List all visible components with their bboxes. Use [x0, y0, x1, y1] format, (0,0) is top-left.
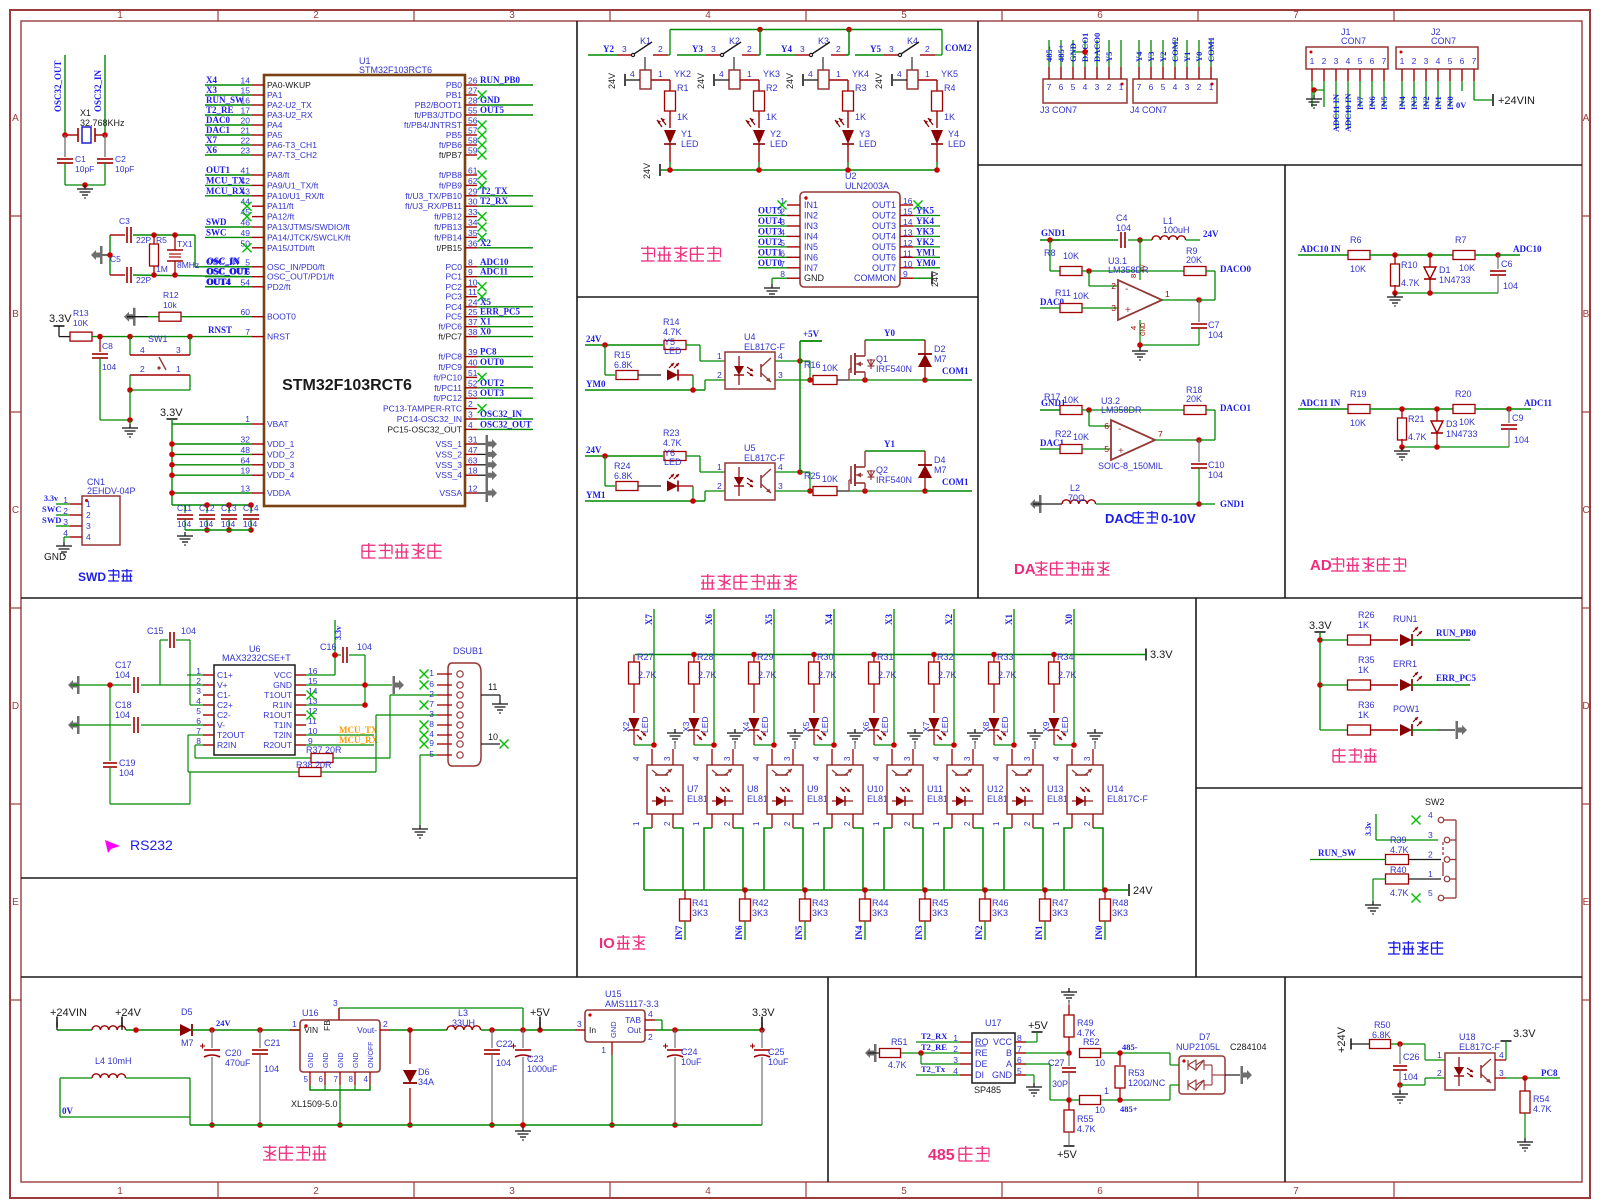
U6 pin 5 C2-: [196, 706, 231, 720]
svg-text:VBAT: VBAT: [267, 419, 289, 429]
svg-text:C18: C18: [115, 700, 132, 710]
svg-text:SWC: SWC: [42, 504, 61, 514]
svg-text:U14: U14: [1107, 784, 1124, 794]
X mark T1OUT: [307, 691, 316, 700]
R1IN tie wire: [306, 702, 368, 708]
svg-text:34: 34: [468, 218, 478, 228]
capacitor C7 104: [1191, 300, 1223, 345]
svg-text:Ω: Ω: [1078, 493, 1085, 503]
svg-text:PC2: PC2: [445, 282, 462, 292]
DSUB1 pin 1: [420, 668, 464, 679]
resistor R41 3K3: [674, 890, 709, 940]
svg-text:ft/PC6: ft/PC6: [438, 322, 462, 332]
svg-text:IRF540N: IRF540N: [876, 475, 912, 485]
svg-text:1: 1: [1428, 869, 1433, 879]
svg-text:ft/PC11: ft/PC11: [434, 383, 462, 393]
svg-text:IN5: IN5: [804, 242, 818, 252]
svg-text:R36: R36: [1358, 700, 1375, 710]
wire R50 to U18 pin1: [1425, 1044, 1445, 1060]
wire opto to 24V rail ch0: [644, 828, 683, 890]
title run switch block: [1388, 941, 1400, 954]
U1 pin 31 VSS_1: [436, 435, 478, 450]
capacitor C10 104: [1191, 440, 1225, 504]
svg-text:47: 47: [468, 445, 478, 455]
U1 pin 27 PB1: [446, 86, 487, 101]
U1 pin 3 PC14-OSC32_IN: [397, 409, 533, 424]
svg-text:R30: R30: [817, 652, 834, 662]
svg-text:T2_RE: T2_RE: [921, 1042, 947, 1052]
LED X2 indicator: [621, 716, 657, 747]
svg-text:7: 7: [1158, 429, 1163, 439]
DSUB1 pin 7: [420, 699, 464, 710]
svg-text:3: 3: [509, 1186, 515, 1197]
svg-text:R22: R22: [1055, 429, 1072, 439]
resistor R38 20R: [188, 715, 437, 777]
svg-text:24V: 24V: [930, 271, 940, 287]
U17 pin 8 VCC: [993, 1033, 1026, 1047]
svg-text:YK4: YK4: [852, 69, 869, 79]
svg-text:20K: 20K: [1186, 255, 1202, 265]
svg-text:104: 104: [221, 519, 235, 529]
svg-text:Q1: Q1: [876, 354, 888, 364]
net label X6 vertical: [704, 609, 714, 745]
svg-text:2: 2: [383, 1019, 388, 1029]
svg-text:13: 13: [903, 227, 913, 237]
svg-text:ft/PB14: ft/PB14: [434, 232, 462, 242]
svg-text:R55: R55: [1077, 1114, 1094, 1124]
X mark SW2 pin5: [1412, 894, 1421, 903]
svg-text:PA2-U2_TX: PA2-U2_TX: [267, 100, 312, 110]
svg-text:28: 28: [468, 96, 478, 106]
LED Y5: [664, 337, 693, 390]
U1 pin 54 PD2/ft: [205, 277, 291, 292]
svg-text:YM1: YM1: [586, 490, 606, 500]
svg-text:X0: X0: [480, 327, 491, 337]
junction dot 3.3V rail ch6: [991, 652, 997, 658]
svg-text:55: 55: [468, 106, 478, 116]
svg-text:0V: 0V: [1456, 100, 1467, 110]
svg-text:IN0: IN0: [1445, 96, 1455, 110]
svg-text:OUT2: OUT2: [480, 378, 505, 388]
inductor L1 100uH: [1152, 216, 1219, 240]
svg-text:ERR1: ERR1: [1393, 659, 1417, 669]
U1 pin 41 PA8/ft: [205, 165, 290, 180]
transceiver U17 SP485 body: [972, 1018, 1015, 1095]
MOSFET Q1 IRF540N: [849, 340, 912, 380]
svg-text:IN7: IN7: [1355, 96, 1365, 110]
svg-text:RUN_PB0: RUN_PB0: [480, 75, 520, 85]
svg-text:Y2: Y2: [770, 129, 781, 139]
svg-text:3: 3: [468, 410, 473, 420]
svg-text:OUT2: OUT2: [872, 211, 896, 221]
relay COM2 top rail wire: [670, 27, 942, 33]
U2 pin 12 OUT5: [872, 237, 940, 252]
svg-text:33: 33: [468, 207, 478, 217]
svg-text:ft/PB9: ft/PB9: [439, 180, 462, 190]
svg-text:X5: X5: [480, 297, 491, 307]
opto pin stubs ch0: [652, 749, 673, 828]
svg-text:YK4: YK4: [916, 216, 935, 226]
common mode choke L4 10mH: [60, 1026, 190, 1125]
J1 pin 6: [1367, 56, 1377, 110]
svg-text:DI: DI: [975, 1070, 984, 1080]
ground for power block: [515, 1122, 531, 1140]
svg-text:R31: R31: [877, 652, 894, 662]
svg-text:C: C: [1582, 505, 1589, 516]
U1 pin 53 ft/PC12: [434, 388, 533, 403]
U2 pin 1 IN1: [778, 196, 819, 210]
svg-text:VSS_1: VSS_1: [436, 439, 463, 449]
svg-text:7: 7: [334, 1075, 339, 1084]
svg-text:3: 3: [1428, 830, 1433, 840]
svg-text:OSC32_OUT: OSC32_OUT: [480, 419, 532, 429]
svg-text:3: 3: [1095, 82, 1100, 92]
svg-text:1: 1: [992, 821, 1001, 826]
ground for R54: [1517, 1138, 1533, 1151]
svg-text:U2: U2: [845, 171, 857, 181]
svg-text:YK2: YK2: [674, 69, 691, 79]
svg-text:COM2: COM2: [1170, 37, 1180, 62]
svg-text:LED: LED: [1060, 716, 1070, 733]
U1 pin 61 ft/PB8: [439, 166, 487, 181]
svg-text:1: 1: [1104, 1086, 1109, 1096]
svg-text:104: 104: [243, 519, 257, 529]
capacitor C27 30P: [1048, 1053, 1076, 1100]
svg-text:MCU_TX: MCU_TX: [206, 175, 245, 185]
SW2 frame link: [1443, 820, 1456, 898]
label RS232: [105, 837, 173, 853]
resistor R44 3K3: [854, 890, 889, 940]
U2 pin 9 COMMON: [854, 269, 913, 283]
zener diode D3 1N4733: [1431, 409, 1478, 447]
svg-text:2: 2: [843, 821, 852, 826]
svg-text:OUT3: OUT3: [480, 388, 505, 398]
svg-text:2: 2: [1437, 1068, 1442, 1078]
capacitor C25 10uF: [750, 1030, 789, 1125]
svg-text:37: 37: [468, 317, 478, 327]
optocoupler U9 EL817C-F: [752, 756, 840, 826]
wire 3.3V to VDD pins: [169, 419, 252, 505]
relay coil YK3: [715, 57, 780, 91]
U17 pin 2 RE: [953, 1044, 987, 1058]
svg-text:22: 22: [241, 136, 251, 146]
svg-text:3: 3: [622, 44, 627, 54]
svg-text:104: 104: [1116, 223, 1131, 233]
U1 pin 38 ft/PC7: [438, 327, 533, 342]
24V power bar for coil YK5: [874, 73, 892, 89]
J3 pin 5: [1068, 40, 1078, 92]
wire K2 K3 contacts to rail: [757, 30, 849, 56]
svg-text:R15: R15: [614, 350, 631, 360]
svg-text:4.7K: 4.7K: [1390, 888, 1409, 898]
svg-text:X6: X6: [206, 145, 217, 155]
svg-text:D: D: [12, 701, 19, 712]
svg-text:6: 6: [1370, 56, 1375, 66]
J2 pin 7: [1472, 56, 1477, 100]
svg-text:11: 11: [903, 248, 912, 258]
svg-text:U4: U4: [744, 332, 756, 342]
svg-text:R11: R11: [1055, 288, 1071, 298]
svg-text:1000uF: 1000uF: [527, 1064, 558, 1074]
svg-text:1K: 1K: [855, 112, 866, 122]
svg-text:A: A: [1583, 113, 1590, 124]
svg-text:7: 7: [1047, 82, 1052, 92]
U3 power pins 8 and 4: [1129, 240, 1147, 345]
svg-text:6.8K: 6.8K: [614, 360, 633, 370]
wire opto to 24V rail ch7: [1064, 828, 1108, 893]
svg-text:OUT4: OUT4: [207, 277, 232, 287]
capacitor C2 10pF: [97, 135, 134, 185]
svg-text:3: 3: [1424, 56, 1429, 66]
svg-text:10K: 10K: [73, 318, 88, 328]
svg-text:19: 19: [241, 466, 251, 476]
LED Y1: [657, 118, 699, 170]
svg-text:470uF: 470uF: [225, 1058, 251, 1068]
SW2 contact 4: [1428, 810, 1444, 823]
svg-text:104: 104: [357, 642, 372, 652]
opto pin stubs ch4: [892, 749, 913, 828]
svg-text:COM1: COM1: [942, 366, 969, 376]
svg-text:ft/PC8: ft/PC8: [438, 352, 462, 362]
svg-text:30: 30: [468, 197, 478, 207]
svg-text:10K: 10K: [1459, 263, 1475, 273]
svg-text:24V: 24V: [874, 73, 884, 89]
svg-text:DA: DA: [1014, 561, 1036, 578]
svg-text:485: 485: [928, 1147, 955, 1164]
svg-text:2: 2: [925, 44, 930, 54]
svg-text:C10: C10: [1208, 460, 1225, 470]
net label X1 vertical: [1004, 609, 1014, 745]
svg-text:C9: C9: [1512, 413, 1524, 423]
U1 pin 2 PC13-TAMPER-RTC: [383, 399, 487, 414]
resistor R2 1K: [754, 83, 778, 128]
svg-text:10K: 10K: [822, 474, 838, 484]
U1 pin 6 OSC_OUT/PD1/ft: [205, 267, 335, 282]
svg-text:LM358DR: LM358DR: [1101, 405, 1142, 415]
J4 pin 7: [1134, 40, 1144, 92]
svg-text:2: 2: [86, 510, 91, 520]
svg-text:104: 104: [1514, 435, 1529, 445]
svg-text:D: D: [1582, 701, 1589, 712]
crystal X1 32.768KHz: [62, 108, 125, 143]
svg-text:1: 1: [601, 1045, 606, 1055]
svg-text:485-: 485-: [1044, 46, 1054, 62]
svg-text:DACO0: DACO0: [1220, 264, 1251, 274]
svg-text:MCU_RX: MCU_RX: [339, 735, 378, 745]
U18 pin3 to PC8: [1495, 1068, 1560, 1081]
svg-text:SWD: SWD: [206, 217, 227, 227]
svg-text:DAC1: DAC1: [206, 125, 230, 135]
U1 pin 21 PA5: [205, 125, 283, 140]
net label 24V pulse ch1: [585, 445, 663, 459]
optocoupler U8 EL817C-F: [692, 756, 780, 826]
svg-text:46: 46: [241, 218, 251, 228]
svg-text:41: 41: [241, 166, 251, 176]
power arrow V- row: [68, 716, 131, 734]
svg-text:4: 4: [364, 1075, 369, 1084]
svg-text:104: 104: [199, 519, 213, 529]
U1 pin 24 PC4: [445, 297, 533, 312]
svg-text:485-: 485-: [1122, 1042, 1138, 1052]
U2 pin 3 IN3: [758, 216, 818, 231]
net label DAC1 input: [1040, 438, 1064, 449]
svg-text:5: 5: [901, 10, 907, 21]
svg-text:OSC_OUT: OSC_OUT: [207, 267, 250, 277]
svg-text:2.7K: 2.7K: [818, 670, 837, 680]
svg-text:62: 62: [468, 176, 478, 186]
svg-text:J4 CON7: J4 CON7: [1130, 105, 1167, 115]
svg-text:24V: 24V: [607, 73, 617, 89]
svg-text:IN4: IN4: [854, 925, 864, 940]
U1 pin 58 ft/PB6: [439, 136, 487, 151]
svg-text:104: 104: [115, 710, 130, 720]
svg-text:MCU_RX: MCU_RX: [206, 186, 245, 196]
svg-text:ULN2003A: ULN2003A: [845, 181, 889, 191]
svg-text:6: 6: [1104, 421, 1109, 431]
relay switch K4: [855, 36, 935, 57]
svg-text:VCC: VCC: [993, 1037, 1013, 1047]
svg-text:Y4: Y4: [1134, 51, 1144, 62]
svg-text:DSUB1: DSUB1: [453, 646, 483, 656]
svg-text:VSSA: VSSA: [439, 488, 462, 498]
opto pin stubs ch6: [1012, 749, 1033, 828]
connector J1 CON7: [1306, 27, 1388, 69]
capacitor C5 22P: [110, 254, 151, 285]
svg-text:Out: Out: [627, 1025, 641, 1035]
svg-text:7: 7: [1137, 82, 1142, 92]
svg-text:C2-: C2-: [217, 710, 231, 720]
svg-text:C23: C23: [527, 1054, 544, 1064]
svg-text:ADC10 IN: ADC10 IN: [1343, 93, 1353, 132]
svg-text:3.3V: 3.3V: [160, 407, 183, 419]
svg-text:10K: 10K: [1063, 395, 1079, 405]
svg-text:M7: M7: [934, 354, 947, 364]
svg-text:10: 10: [903, 259, 913, 269]
svg-text:4: 4: [897, 69, 902, 79]
svg-text:26: 26: [468, 76, 478, 86]
U6 pin 2 V+: [196, 676, 227, 690]
net 0V and +24VIN power port: [1456, 94, 1535, 110]
ground for U17: [1026, 1075, 1042, 1096]
svg-text:4.7K: 4.7K: [888, 1060, 907, 1070]
svg-text:8MHz: 8MHz: [177, 260, 199, 270]
capacitor C24 10uF: [663, 1030, 702, 1128]
svg-text:7: 7: [1382, 56, 1387, 66]
svg-text:RUN_PB0: RUN_PB0: [1436, 628, 1476, 638]
svg-text:U16: U16: [302, 1008, 319, 1018]
svg-text:5: 5: [196, 706, 201, 716]
U1 pin 5 OSC_IN/PD0/ft: [205, 257, 325, 272]
U2 pin 16 OUT1: [872, 196, 923, 210]
svg-text:7: 7: [245, 327, 250, 337]
svg-text:11: 11: [488, 682, 497, 692]
svg-text:IN5: IN5: [794, 925, 804, 940]
svg-text:C22: C22: [496, 1039, 513, 1049]
svg-text:B: B: [1583, 309, 1590, 320]
wire relay K3 to COM2 rail: [846, 30, 849, 56]
svg-text:6: 6: [1460, 56, 1465, 66]
svg-text:IN6: IN6: [804, 252, 818, 262]
diode D2 M7: [918, 340, 947, 380]
junction dot 3.3V rail ch3: [811, 652, 817, 658]
U1 pin 4 PC15-OSC32_OUT: [387, 419, 533, 434]
svg-text:A: A: [1006, 1059, 1012, 1069]
svg-text:B: B: [12, 309, 19, 320]
J1 pin 3: [1331, 56, 1341, 132]
svg-text:4.7K: 4.7K: [1390, 845, 1409, 855]
svg-text:3: 3: [800, 44, 805, 54]
resistor R4 1K: [932, 83, 956, 128]
resistor R22 10K: [1055, 429, 1111, 454]
svg-text:1K: 1K: [766, 112, 777, 122]
svg-text:ft/PC9: ft/PC9: [438, 362, 462, 372]
svg-text:2: 2: [313, 1186, 319, 1197]
svg-text:POW1: POW1: [1393, 704, 1420, 714]
svg-text:4: 4: [1499, 1050, 1504, 1060]
svg-text:C14: C14: [243, 503, 259, 513]
svg-text:11: 11: [468, 287, 477, 297]
svg-text:51: 51: [468, 368, 478, 378]
ground for U3.1: [1132, 342, 1199, 360]
svg-text:C4: C4: [1116, 213, 1128, 223]
U1 designator: [359, 56, 432, 75]
svg-text:4: 4: [1173, 82, 1178, 92]
svg-text:4: 4: [705, 10, 711, 21]
svg-text:4.7K: 4.7K: [663, 327, 682, 337]
ground for reset circuit: [122, 420, 138, 437]
svg-text:ADC11 IN: ADC11 IN: [1331, 93, 1341, 132]
resistor R33 2.7K: [989, 652, 1017, 713]
svg-text:IN2: IN2: [974, 925, 984, 940]
J4 pin 6: [1146, 40, 1156, 92]
svg-text:SWD: SWD: [78, 570, 106, 584]
svg-text:C1: C1: [75, 154, 86, 164]
U1 pin 57 PB5: [446, 126, 487, 141]
svg-text:+5V: +5V: [1028, 1020, 1049, 1032]
relay 24V bottom rail: [642, 163, 940, 179]
+5V power port: [530, 1007, 551, 1030]
svg-text:YK5: YK5: [916, 206, 935, 216]
svg-text:Y3: Y3: [1146, 52, 1156, 62]
svg-text:VIN: VIN: [304, 1025, 318, 1035]
svg-text:R48: R48: [1112, 898, 1129, 908]
svg-text:PA3-U2_RX: PA3-U2_RX: [267, 110, 313, 120]
svg-text:1: 1: [292, 1019, 297, 1029]
net label GND1 da ch1: [1040, 398, 1066, 410]
svg-text:1: 1: [872, 821, 881, 826]
U2 pin 13 OUT4: [872, 226, 940, 241]
svg-text:2.7K: 2.7K: [758, 670, 777, 680]
switch SW1: [127, 334, 190, 423]
diode D5 M7: [180, 1007, 232, 1048]
svg-text:C17: C17: [115, 660, 132, 670]
svg-text:R46: R46: [992, 898, 1009, 908]
svg-text:10K: 10K: [822, 363, 838, 373]
svg-text:9: 9: [903, 269, 908, 279]
svg-text:RS232: RS232: [130, 837, 173, 853]
optocoupler U14 EL817C-F: [1052, 756, 1149, 826]
svg-text:6: 6: [1097, 10, 1103, 21]
U6 pin 6 V-: [196, 716, 225, 730]
svg-text:LED: LED: [760, 716, 770, 733]
svg-text:STM32F103RCT6: STM32F103RCT6: [359, 65, 432, 75]
svg-text:DAC0: DAC0: [206, 115, 230, 125]
svg-text:Y4: Y4: [948, 129, 959, 139]
GND row to power arrow: [306, 676, 404, 694]
capacitor C21 104: [252, 1030, 281, 1128]
svg-text:2: 2: [783, 821, 792, 826]
svg-text:PB5: PB5: [446, 130, 462, 140]
